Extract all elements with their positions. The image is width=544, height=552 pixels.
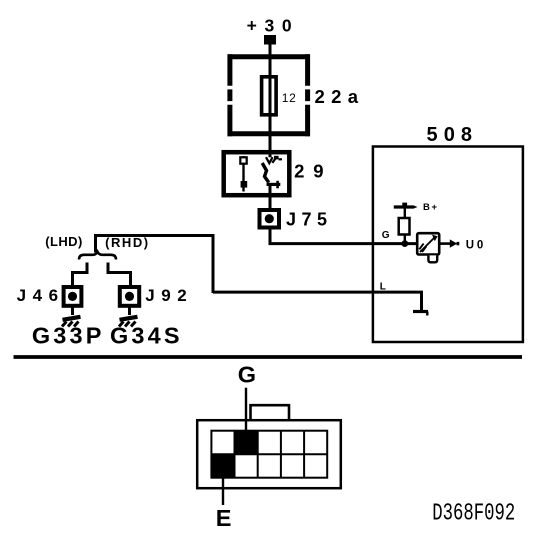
svg-text:22a: 22a	[315, 86, 359, 107]
pin G cell (filled)	[235, 431, 258, 455]
connector J46	[64, 287, 82, 306]
fuse holder dashed box 22a	[228, 54, 311, 136]
switch 29 lower contact	[267, 183, 281, 186]
switch 29 lever	[262, 163, 269, 183]
wire brace to J92	[108, 263, 131, 287]
switch 29 hook	[272, 157, 276, 163]
sensor arrow	[420, 238, 435, 253]
wire LHD/RHD branch to terminal L	[96, 236, 214, 294]
wire into switch	[269, 148, 272, 158]
resistor	[399, 218, 410, 235]
wire terminal L to internal ground	[213, 292, 422, 311]
sensor slashes	[419, 244, 426, 252]
ground G33P symbol	[62, 317, 81, 327]
pin G leader wire	[245, 388, 247, 435]
junction node	[401, 240, 408, 247]
separator rule	[14, 355, 523, 359]
svg-text:12: 12	[282, 91, 296, 105]
ground G33P wire	[71, 306, 74, 316]
ground G34S symbol	[119, 317, 138, 327]
wire brace to J46	[73, 263, 88, 287]
svg-text:508: 508	[427, 124, 473, 146]
svg-text:G: G	[382, 230, 390, 241]
svg-text:L: L	[380, 281, 386, 292]
svg-text:J46: J46	[17, 286, 59, 305]
svg-text:+30: +30	[247, 16, 292, 36]
ground G34S wire	[128, 306, 131, 316]
pin E cell (filled)	[211, 454, 234, 478]
wire J75 to box 508 (terminal G)	[269, 227, 417, 244]
box 508	[373, 147, 523, 343]
B+ rail	[394, 205, 414, 208]
svg-text:J75: J75	[286, 209, 327, 229]
wire B+ to resistor to node	[404, 207, 406, 244]
switch 29 left pole	[242, 156, 244, 192]
alternative brace	[79, 252, 116, 260]
svg-text:G: G	[238, 362, 256, 388]
switch 29 box	[224, 152, 290, 195]
svg-text:J92: J92	[145, 286, 187, 305]
output wire	[441, 242, 451, 245]
internal ground bar	[413, 310, 428, 313]
pin E leader wire	[222, 470, 224, 505]
svg-text:E: E	[216, 505, 232, 531]
output arrow	[450, 239, 457, 247]
svg-text:(LHD): (LHD)	[45, 234, 82, 249]
svg-text:(RHD): (RHD)	[105, 235, 148, 250]
sensor bottom tab	[428, 255, 437, 262]
sensor (photo sensor) box	[417, 233, 439, 254]
connector J75	[260, 210, 280, 228]
housing tab	[251, 405, 290, 419]
wire switch to J75	[269, 184, 272, 209]
switch 29 right pole contact	[266, 157, 273, 163]
connector J92	[120, 287, 139, 306]
terminal 30 square	[264, 35, 276, 45]
fuse S12 element	[262, 77, 277, 115]
wire from terminal 30 through fuse	[269, 44, 272, 150]
svg-text:D368F092: D368F092	[432, 501, 515, 528]
pin grid	[211, 431, 327, 478]
connector housing	[197, 420, 341, 488]
